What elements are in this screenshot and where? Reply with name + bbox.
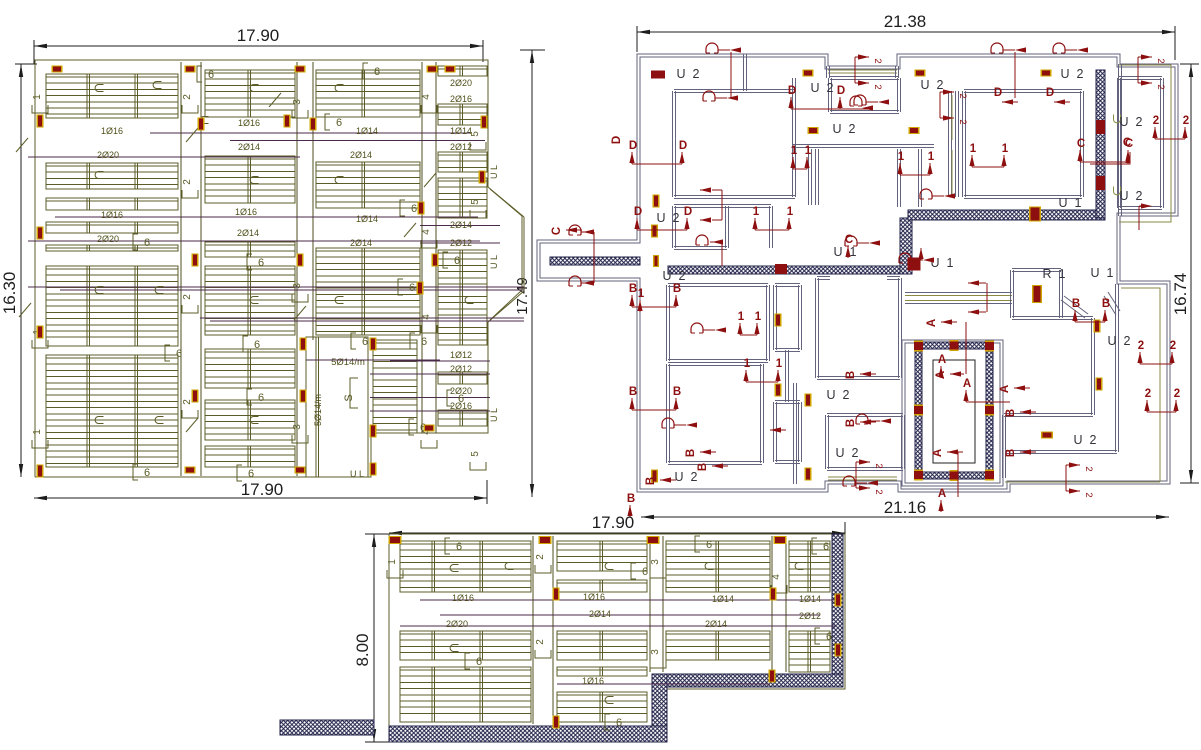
column marker — [553, 588, 560, 601]
joist panel — [205, 266, 295, 335]
svg-text:3: 3 — [292, 424, 303, 430]
svg-text:D: D — [1046, 87, 1054, 99]
svg-text:2: 2 — [1183, 115, 1189, 127]
stair marker — [914, 341, 923, 352]
svg-text:6: 6 — [254, 339, 260, 351]
svg-text:U 2: U 2 — [663, 269, 686, 283]
svg-text:17.90: 17.90 — [237, 26, 280, 45]
joist panel — [205, 156, 295, 203]
svg-text:21.16: 21.16 — [884, 498, 927, 517]
column marker — [553, 716, 560, 729]
wall — [1116, 284, 1119, 452]
svg-text:A: A — [999, 385, 1011, 393]
svg-text:C: C — [845, 234, 853, 246]
svg-text:2Ø14: 2Ø14 — [237, 228, 259, 238]
hatched wall vertical — [1096, 70, 1105, 218]
wall — [744, 54, 747, 91]
corridor to R1 — [905, 293, 1012, 304]
wall — [674, 196, 795, 199]
column marker — [37, 115, 44, 128]
wall — [673, 206, 676, 248]
svg-text:3: 3 — [292, 99, 303, 105]
svg-text:5Ø14/m: 5Ø14/m — [313, 394, 323, 426]
svg-text:2: 2 — [182, 294, 193, 300]
column marker — [295, 66, 306, 73]
svg-text:D: D — [679, 140, 687, 152]
column marker — [300, 390, 307, 403]
joist panel — [316, 248, 420, 335]
wall — [1118, 78, 1121, 208]
wall — [674, 205, 771, 208]
wall — [809, 149, 812, 205]
wall — [956, 91, 959, 197]
svg-text:1Ø14: 1Ø14 — [356, 214, 378, 224]
joist panel — [373, 340, 417, 433]
joist panel — [557, 631, 647, 660]
column marker — [284, 115, 291, 128]
svg-text:1: 1 — [970, 143, 977, 155]
svg-text:U 2: U 2 — [827, 388, 850, 402]
svg-text:2: 2 — [1138, 340, 1144, 352]
joist panel — [316, 70, 420, 117]
svg-text:D: D — [629, 140, 637, 152]
dimension 17.49 right — [531, 50, 533, 497]
svg-text:1: 1 — [776, 358, 783, 370]
column marker — [418, 202, 425, 215]
joist panel — [46, 222, 178, 233]
joist panel — [46, 355, 178, 467]
wall — [774, 402, 777, 462]
wall — [830, 111, 899, 114]
svg-text:2Ø12: 2Ø12 — [450, 238, 472, 248]
wall — [799, 285, 802, 350]
column marker — [432, 254, 439, 267]
column marker — [479, 171, 486, 184]
wall — [775, 401, 800, 404]
svg-text:A: A — [963, 378, 971, 390]
svg-text:6: 6 — [336, 117, 342, 129]
svg-text:U 1: U 1 — [1059, 196, 1082, 210]
svg-text:U 1: U 1 — [834, 245, 857, 259]
wall — [667, 364, 670, 463]
hatched wall jog — [900, 218, 912, 274]
svg-text:16.30: 16.30 — [0, 272, 19, 315]
svg-text:6: 6 — [616, 717, 622, 729]
svg-text:U 2: U 2 — [677, 67, 700, 81]
wall — [919, 149, 922, 207]
wall — [1003, 415, 1006, 478]
joist panel — [205, 242, 295, 257]
wall — [674, 247, 727, 250]
svg-text:5: 5 — [470, 199, 481, 205]
column marker — [192, 390, 199, 403]
svg-text:6: 6 — [706, 539, 712, 551]
svg-text:5: 5 — [470, 131, 481, 137]
svg-text:U 2: U 2 — [833, 122, 856, 136]
wall — [1081, 91, 1084, 197]
wall — [898, 78, 901, 112]
joist panel — [438, 410, 487, 426]
joist panel — [438, 104, 487, 125]
svg-text:D: D — [994, 87, 1002, 99]
svg-text:D: D — [611, 136, 623, 144]
joist panel — [400, 667, 531, 722]
svg-text:2Ø14: 2Ø14 — [450, 220, 472, 230]
wall — [829, 78, 832, 112]
svg-text:2: 2 — [1170, 340, 1176, 352]
svg-text:B: B — [1005, 449, 1017, 457]
joist panel — [438, 372, 487, 384]
svg-text:2: 2 — [1083, 492, 1094, 497]
svg-text:1: 1 — [791, 145, 798, 157]
svg-text:1: 1 — [898, 151, 905, 163]
svg-text:U 2: U 2 — [1120, 189, 1143, 203]
svg-text:A: A — [938, 488, 946, 500]
svg-text:2: 2 — [957, 93, 968, 98]
svg-text:D: D — [634, 206, 642, 218]
svg-text:2Ø14: 2Ø14 — [705, 619, 727, 629]
wall — [775, 349, 800, 352]
column marker — [52, 66, 63, 73]
slab outline — [35, 60, 524, 477]
svg-text:U 2: U 2 — [1120, 115, 1143, 129]
svg-text:4: 4 — [421, 229, 432, 235]
wall — [887, 277, 900, 280]
svg-text:B: B — [673, 283, 681, 295]
dimension 17.90 bottom — [34, 497, 487, 499]
wall — [1061, 317, 1093, 320]
svg-text:6: 6 — [456, 541, 462, 553]
svg-text:21.38: 21.38 — [884, 12, 927, 31]
joist panel — [666, 631, 770, 660]
column marker — [424, 425, 435, 432]
svg-text:2Ø20: 2Ø20 — [97, 234, 119, 244]
U bar glyphs — [95, 85, 103, 92]
svg-text:6: 6 — [208, 69, 214, 81]
wall — [896, 66, 899, 78]
wall — [1012, 269, 1061, 272]
wall — [799, 402, 802, 462]
section marks — [706, 43, 718, 53]
column marker — [37, 326, 44, 339]
wall — [775, 284, 800, 287]
svg-text:U 2: U 2 — [836, 446, 859, 460]
svg-text:D: D — [684, 206, 692, 218]
svg-text:6: 6 — [374, 66, 380, 78]
stair marker — [985, 405, 994, 416]
wall — [668, 462, 762, 465]
joist panel — [438, 66, 487, 76]
svg-text:U 1: U 1 — [1091, 266, 1114, 280]
wall — [817, 277, 830, 280]
svg-text:1: 1 — [805, 145, 812, 157]
joist panel — [438, 152, 487, 172]
svg-text:6: 6 — [258, 392, 264, 404]
joist panel — [46, 266, 178, 346]
red wall pieces — [1096, 120, 1105, 134]
svg-text:6: 6 — [421, 336, 427, 348]
wall — [1011, 270, 1014, 318]
joist panel — [205, 400, 295, 440]
svg-text:D: D — [788, 85, 796, 97]
joist panel — [557, 692, 647, 722]
svg-text:2: 2 — [1153, 115, 1159, 127]
svg-text:B: B — [1072, 298, 1080, 310]
left slab plan — [0, 26, 545, 504]
svg-text:A: A — [926, 319, 938, 327]
svg-text:2Ø12: 2Ø12 — [799, 611, 821, 621]
joist panel — [789, 541, 830, 592]
svg-text:U L: U L — [489, 408, 499, 422]
svg-text:3: 3 — [650, 559, 661, 565]
svg-text:16.74: 16.74 — [1171, 273, 1190, 316]
svg-text:2Ø20: 2Ø20 — [97, 150, 119, 160]
svg-text:1Ø14: 1Ø14 — [799, 594, 821, 604]
joist panel — [205, 70, 295, 117]
svg-text:1Ø16: 1Ø16 — [238, 118, 260, 128]
wall — [1119, 77, 1162, 80]
svg-text:2: 2 — [535, 639, 546, 645]
wall — [673, 91, 676, 197]
svg-text:6: 6 — [411, 203, 417, 215]
svg-text:1: 1 — [387, 559, 398, 565]
svg-text:2: 2 — [873, 489, 884, 494]
column marker — [774, 536, 787, 544]
column marker — [198, 118, 205, 131]
svg-text:1: 1 — [32, 429, 43, 435]
outline — [389, 534, 845, 742]
stair marker — [985, 341, 994, 352]
svg-text:2: 2 — [957, 119, 968, 124]
column marker — [770, 588, 777, 601]
wall — [963, 91, 966, 197]
svg-text:1: 1 — [1002, 143, 1009, 155]
wall — [1092, 318, 1095, 415]
svg-text:U 2: U 2 — [1108, 334, 1131, 348]
column marker — [297, 254, 304, 267]
hatched wall inner horizontal — [668, 266, 902, 274]
svg-text:2: 2 — [1155, 58, 1166, 63]
svg-text:1: 1 — [928, 151, 935, 163]
panel labels 6 — [197, 66, 202, 82]
column marker — [389, 536, 402, 544]
column marker — [300, 338, 307, 351]
svg-text:2Ø12: 2Ø12 — [450, 364, 472, 374]
wall — [830, 77, 899, 80]
svg-text:1Ø16: 1Ø16 — [235, 207, 257, 217]
stair marker — [914, 470, 923, 481]
svg-text:2: 2 — [535, 554, 546, 560]
column marker — [192, 254, 199, 267]
wall — [902, 415, 905, 469]
column marker — [427, 66, 438, 73]
svg-text:17.90: 17.90 — [592, 513, 635, 532]
wall — [949, 91, 952, 197]
svg-text:5Ø14/m: 5Ø14/m — [331, 357, 365, 368]
svg-text:C: C — [551, 227, 563, 235]
joist panel — [46, 163, 178, 189]
wall — [964, 90, 1082, 93]
svg-text:1Ø16: 1Ø16 — [101, 126, 123, 136]
svg-text:2Ø14: 2Ø14 — [238, 142, 260, 152]
rebar lines — [150, 132, 470, 134]
bottom slab plan — [280, 513, 845, 742]
wall — [826, 415, 829, 469]
svg-text:8.00: 8.00 — [353, 633, 372, 666]
wall — [898, 149, 901, 207]
outer wall — [537, 54, 1178, 492]
column marker — [370, 425, 377, 438]
wall — [964, 196, 1082, 199]
svg-text:6: 6 — [454, 255, 460, 267]
svg-text:B: B — [629, 283, 637, 295]
svg-text:1: 1 — [744, 358, 751, 370]
svg-text:6: 6 — [144, 237, 150, 249]
rotated band labels — [182, 105, 198, 113]
column marker — [769, 670, 776, 683]
svg-text:4: 4 — [421, 94, 432, 100]
svg-text:2Ø14: 2Ø14 — [350, 238, 372, 248]
svg-text:6: 6 — [144, 467, 150, 479]
wall — [793, 145, 934, 148]
svg-text:2: 2 — [872, 58, 883, 63]
joist panel — [400, 541, 531, 592]
wall — [816, 149, 819, 205]
svg-text:U 2: U 2 — [675, 470, 698, 484]
svg-text:B: B — [629, 386, 637, 398]
svg-text:C: C — [1077, 138, 1085, 150]
wall — [827, 468, 903, 471]
wall — [674, 90, 795, 93]
wall — [816, 278, 819, 378]
svg-text:C: C — [1123, 137, 1131, 149]
svg-text:6: 6 — [823, 541, 829, 553]
dimension 17.90 top — [34, 45, 483, 47]
wall — [827, 414, 903, 417]
stair marker — [914, 405, 923, 416]
joist panel — [46, 198, 178, 210]
stair S — [306, 337, 368, 477]
svg-text:R 1: R 1 — [1043, 267, 1066, 281]
svg-text:2: 2 — [1174, 388, 1180, 400]
column marker — [370, 463, 377, 476]
column marker — [310, 118, 317, 131]
svg-text:S: S — [343, 394, 355, 401]
wall — [761, 364, 764, 463]
svg-text:1: 1 — [755, 311, 762, 323]
svg-text:2Ø20: 2Ø20 — [446, 619, 468, 629]
svg-text:1Ø14: 1Ø14 — [356, 126, 378, 136]
hatched wall horizontal main — [550, 257, 640, 265]
svg-text:2Ø16: 2Ø16 — [450, 94, 472, 104]
svg-text:U 2: U 2 — [921, 78, 944, 92]
svg-text:B: B — [627, 493, 635, 505]
svg-text:1: 1 — [738, 311, 745, 323]
wall — [1060, 270, 1063, 318]
joist panel — [789, 631, 830, 672]
svg-text:B: B — [673, 386, 681, 398]
joist panel — [557, 667, 647, 676]
svg-text:U 2: U 2 — [811, 81, 834, 95]
svg-text:B: B — [1005, 409, 1017, 417]
joist panel — [46, 245, 178, 251]
column marker — [417, 282, 424, 295]
svg-text:B: B — [685, 449, 697, 457]
svg-text:U L: U L — [489, 165, 499, 179]
wall — [1012, 317, 1061, 320]
wall — [794, 383, 797, 484]
stair marker — [985, 470, 994, 481]
joist panel — [666, 541, 770, 592]
svg-text:A: A — [938, 354, 946, 366]
svg-text:3: 3 — [650, 649, 661, 655]
svg-text:U L: U L — [350, 469, 364, 479]
wall — [1161, 78, 1164, 208]
wall — [667, 285, 670, 361]
svg-text:2: 2 — [1083, 466, 1094, 471]
svg-text:1Ø12: 1Ø12 — [450, 350, 472, 360]
column marker — [37, 465, 44, 478]
wall — [770, 206, 773, 248]
joist panel — [438, 250, 487, 345]
svg-text:1Ø14: 1Ø14 — [712, 594, 734, 604]
svg-text:1: 1 — [32, 94, 43, 100]
joist panel — [316, 162, 420, 208]
column marker — [185, 66, 196, 73]
svg-text:U 2: U 2 — [657, 211, 680, 225]
column marker — [370, 338, 377, 351]
svg-text:1Ø16: 1Ø16 — [582, 676, 604, 686]
svg-text:2: 2 — [182, 179, 193, 185]
joist panel — [205, 446, 295, 467]
svg-text:2Ø20: 2Ø20 — [450, 78, 472, 88]
joist panel — [557, 580, 647, 592]
svg-text:2: 2 — [182, 94, 193, 100]
svg-text:2Ø12: 2Ø12 — [450, 142, 472, 152]
beam lines — [181, 62, 201, 476]
dimension 21.38 top — [637, 31, 1175, 33]
wall — [793, 78, 796, 197]
svg-text:5: 5 — [470, 451, 481, 457]
joist panel — [400, 631, 531, 660]
joist panel — [205, 349, 295, 388]
svg-text:4: 4 — [771, 574, 782, 580]
svg-text:A: A — [932, 449, 944, 457]
wall — [668, 363, 762, 366]
stairwell hatched — [902, 340, 1003, 486]
svg-text:1Ø16: 1Ø16 — [452, 593, 474, 603]
svg-text:A: A — [935, 371, 947, 379]
svg-text:U 2: U 2 — [1074, 433, 1097, 447]
wall — [1005, 451, 1117, 454]
dimension 8.00 left — [373, 534, 375, 742]
wall — [668, 284, 768, 287]
svg-text:1Ø16: 1Ø16 — [101, 210, 123, 220]
svg-text:2: 2 — [1145, 388, 1151, 400]
svg-text:B: B — [645, 477, 657, 485]
wall — [668, 360, 768, 363]
wall — [1119, 64, 1122, 216]
column marker — [647, 536, 660, 544]
wall — [1119, 207, 1162, 210]
svg-text:17.90: 17.90 — [241, 480, 284, 499]
stair marker — [950, 340, 959, 351]
wall — [786, 350, 789, 402]
svg-text:6: 6 — [476, 656, 482, 668]
svg-text:1Ø16: 1Ø16 — [583, 592, 605, 602]
wall — [817, 377, 900, 380]
svg-text:U L: U L — [489, 255, 499, 269]
